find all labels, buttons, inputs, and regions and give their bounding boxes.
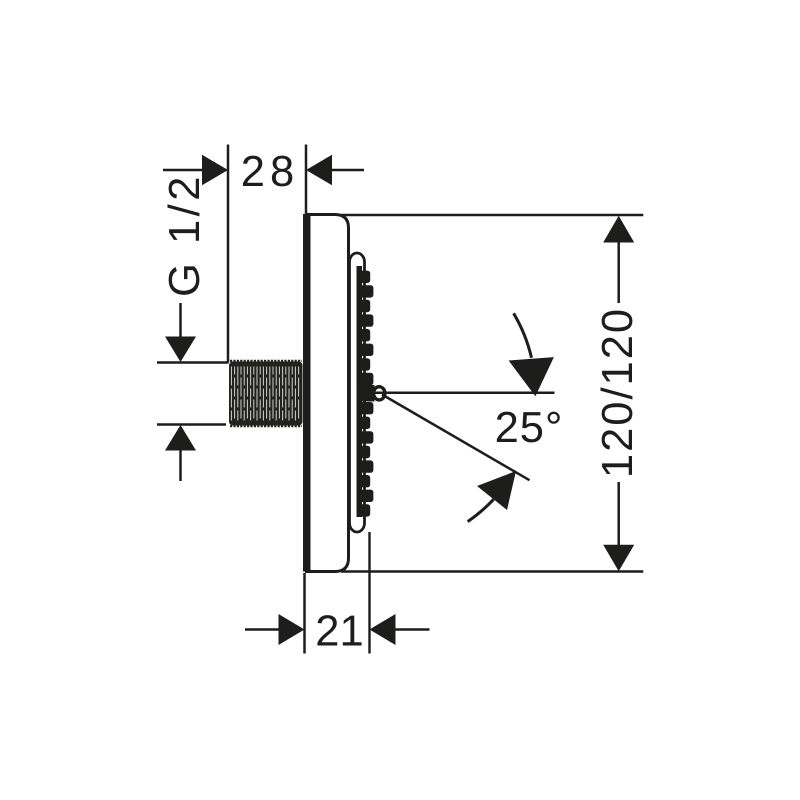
angle arrow upper (toward horizontal): [509, 357, 554, 396]
arrowhead 21 right: [370, 614, 396, 645]
angle annotation: [374, 313, 555, 521]
arrowhead 28 right: [306, 155, 332, 185]
svg-text:G 1/2: G 1/2: [161, 173, 209, 297]
face plate: [350, 253, 365, 532]
dimension 28 (top): [163, 145, 364, 363]
arrowhead G1/2 down: [165, 337, 196, 363]
extension line top (120/120): [341, 214, 643, 217]
body (escutcheon side profile): [307, 215, 349, 572]
extension line right of 21 dim: [368, 532, 370, 654]
pivot nozzle nub ring: [374, 387, 385, 400]
svg-text:28: 28: [241, 148, 299, 196]
arrowhead 28 left: [202, 155, 228, 185]
arrowhead G1/2 up: [165, 425, 196, 451]
svg-text:120/120: 120/120: [594, 307, 642, 478]
dimension 21 (bottom): [245, 573, 430, 654]
arrowhead 21 left: [279, 614, 305, 645]
wall plate edge bar: [303, 214, 311, 572]
svg-text:25°: 25°: [495, 404, 564, 452]
extension line bottom (120/120): [341, 570, 643, 573]
nozzle strip: [357, 266, 375, 517]
arrowhead 120/120 down: [603, 545, 634, 571]
svg-text:21: 21: [315, 607, 363, 655]
angle arrow lower (toward 25-degree line): [477, 471, 516, 510]
dimension 120/120 (right, vertical): [617, 242, 620, 545]
threaded pipe nipple G1/2: [229, 361, 303, 426]
arrowhead 120/120 up: [603, 216, 634, 243]
